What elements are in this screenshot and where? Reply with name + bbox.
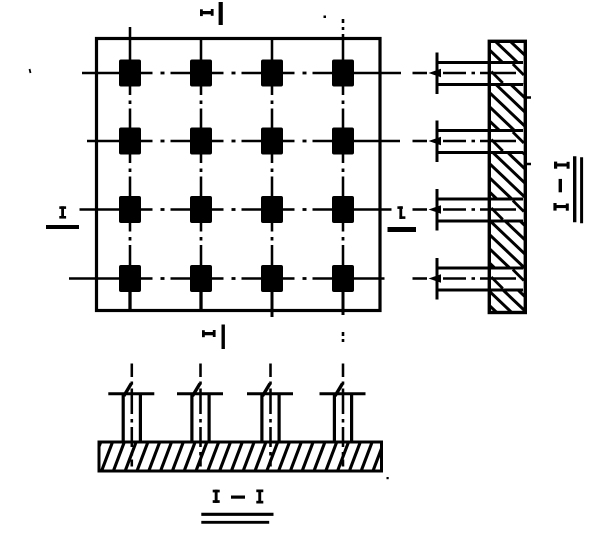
section mark left: letter I <box>59 206 66 218</box>
column square row4 col2 (anchor-bolt group) <box>190 265 212 292</box>
column line 1 centerline (vertical dash-dot axis) <box>129 27 132 311</box>
wall right edge tick 1 <box>524 96 531 99</box>
row 3 centerline (horizontal dash-dot axis) <box>80 208 392 211</box>
section mark top: cutting-plane line <box>219 2 223 25</box>
wall right edge tick 2 <box>524 163 531 166</box>
section mark right: cutting-plane line <box>388 227 417 232</box>
column square row1 col3 (anchor-bolt group) <box>261 60 283 87</box>
anchor bolt group 3 in slab section <box>247 364 293 467</box>
row 1 centerline (horizontal dash-dot axis) <box>82 72 401 75</box>
label underline 2 <box>201 521 269 524</box>
column square row3 col3 (anchor-bolt group) <box>261 196 283 223</box>
anchor bolt group 1 in slab section <box>108 364 154 467</box>
column square row4 col4 (anchor-bolt group) <box>332 265 354 292</box>
column square row2 col4 (anchor-bolt group) <box>332 128 354 155</box>
section label I-I (rotated 90deg, right side) <box>553 162 569 211</box>
column square row3 col4 (anchor-bolt group) <box>332 196 354 223</box>
speck above frame <box>324 16 327 19</box>
column square row1 col2 (anchor-bolt group) <box>190 60 212 87</box>
column square row4 col3 (anchor-bolt group) <box>261 265 283 292</box>
column square row3 col2 (anchor-bolt group) <box>190 196 212 223</box>
section mark top: rotated letter I <box>200 9 214 16</box>
section label I-I (bottom) <box>213 490 264 504</box>
column square row1 col4 (anchor-bolt group) <box>332 60 354 87</box>
anchor bolt group 4 in wall section <box>413 258 524 300</box>
column square row2 col1 (anchor-bolt group) <box>119 128 141 155</box>
section mark bottom: cutting-plane line <box>222 325 225 350</box>
anchor-bolt layout plan: foundation outline <box>97 39 381 311</box>
row 2 centerline (horizontal dash-dot axis) <box>87 140 400 143</box>
column line 4 centerline (vertical dash-dot axis) <box>342 19 345 342</box>
rotated label underline 2 <box>580 157 583 223</box>
label underline 1 <box>201 513 273 516</box>
anchor bolt group 3 in wall section <box>413 189 524 231</box>
section mark bottom: rotated letter I <box>202 330 216 337</box>
section mark left: cutting-plane line <box>46 225 79 229</box>
column square row1 col1 (anchor-bolt group) <box>119 60 141 87</box>
column line 2 centerline (vertical dash-dot axis) <box>200 39 203 312</box>
row 4 centerline (horizontal dash-dot axis) <box>69 277 385 280</box>
column line 3 centerline (vertical dash-dot axis) <box>271 39 274 318</box>
anchor bolt group 4 in slab section <box>320 364 366 467</box>
column square row4 col1 (anchor-bolt group) <box>119 265 141 292</box>
column square row2 col2 (anchor-bolt group) <box>190 128 212 155</box>
anchor bolt group 2 in slab section <box>177 364 223 467</box>
column square row3 col1 (anchor-bolt group) <box>119 196 141 223</box>
speck below slab <box>387 477 389 479</box>
anchor bolt group 2 in wall section <box>413 121 524 163</box>
speck top-left <box>30 69 31 73</box>
anchor bolt group 1 in wall section <box>413 53 524 95</box>
section mark right: letter I <box>397 206 405 219</box>
rotated label underline 1 <box>573 156 576 222</box>
column square row2 col3 (anchor-bolt group) <box>261 128 283 155</box>
